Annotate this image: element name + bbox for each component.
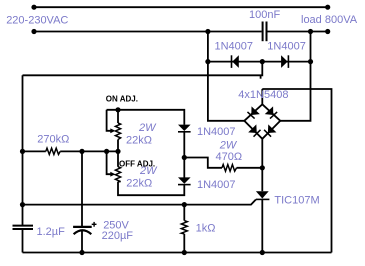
- wire ON pot top rail: [107, 110, 185, 125]
- resistor P1 wiper arrow: [110, 128, 115, 133]
- node middle rail left junction: [20, 149, 25, 154]
- wire diode row: [208, 61, 311, 63]
- wire 1k bottom lead: [183, 234, 185, 253]
- resistor R2 470 zigzag: [222, 165, 237, 172]
- wire bridge top to right rail: [262, 89, 331, 253]
- bridge diode lower-right: [264, 124, 277, 137]
- node middle rail 220uF junction: [79, 149, 84, 154]
- thyristor Q1 TIC107M: [256, 191, 270, 199]
- wire diode-row right down to bridge right: [280, 62, 310, 121]
- node mains terminal bottom left: [31, 29, 36, 34]
- bridge diode upper-right: [265, 106, 278, 119]
- svg-text:1N4007: 1N4007: [215, 41, 254, 53]
- wire between diodes D3 D4: [183, 132, 185, 178]
- svg-text:ON ADJ.: ON ADJ.: [106, 94, 138, 103]
- resistor P2 wiper arrow: [110, 172, 115, 177]
- svg-text:2W: 2W: [138, 122, 157, 134]
- wire ON pot top terminal: [117, 110, 119, 123]
- resistor R3 1k zigzag: [181, 221, 187, 234]
- node diode row left junction: [205, 59, 210, 64]
- svg-text:22kΩ: 22kΩ: [126, 135, 152, 147]
- wire left column lower: [22, 229, 24, 252]
- node 1k top junction: [182, 202, 187, 207]
- diode D2 1N4007 right pointing: [281, 55, 288, 68]
- svg-text:2W: 2W: [219, 139, 238, 151]
- wire 220uF column lower: [81, 231, 83, 253]
- wire stub below box-top corner: [260, 75, 262, 78]
- node gate row left junction: [20, 202, 25, 207]
- node diode row right junction: [308, 59, 313, 64]
- svg-text:TIC107M: TIC107M: [274, 195, 319, 207]
- resistor P2 OFF pot 22k zigzag: [115, 167, 120, 182]
- wire mains line 2 left section: [34, 31, 262, 33]
- wire 220uF column upper: [81, 151, 83, 226]
- wire bottom rail: [23, 252, 332, 254]
- svg-text:220µF: 220µF: [102, 230, 134, 242]
- svg-text:2W: 2W: [139, 165, 158, 177]
- wire 470 ohm jog: [184, 158, 222, 168]
- wire ON pot wiper: [107, 110, 112, 131]
- wire diode junction down and left to box top: [23, 62, 263, 76]
- wire gate row: [23, 200, 256, 205]
- svg-text:220-230VAC: 220-230VAC: [6, 14, 68, 26]
- wire bridge top feed: [261, 89, 263, 104]
- svg-text:1N4007: 1N4007: [197, 179, 236, 191]
- svg-text:1.2µF: 1.2µF: [37, 226, 66, 238]
- wire top mains line 1: [34, 6, 328, 8]
- node OFF pot wiper junction: [104, 149, 109, 154]
- node diodes D3 D4 junction: [182, 155, 187, 160]
- capacitor C2 1.2uF plates: [13, 226, 34, 229]
- diode D3 1N4007 down pointing: [178, 125, 191, 132]
- svg-text:22kΩ: 22kΩ: [126, 178, 152, 190]
- diode D4 1N4007 down pointing: [178, 177, 191, 184]
- svg-text:100nF: 100nF: [249, 9, 280, 21]
- wire vertical wire2 to bridge left: [208, 32, 244, 121]
- resistor P1 ON pot 22k zigzag: [115, 123, 120, 140]
- node bottom rail SCR junction: [260, 250, 265, 255]
- node mains terminal top left: [31, 5, 36, 10]
- bridge diode upper-left: [247, 106, 260, 119]
- wire SCR column cathode: [261, 199, 263, 252]
- svg-text:4x1N5408: 4x1N5408: [238, 89, 288, 101]
- resistor R1 270k zigzag: [46, 148, 60, 154]
- wire 1k top lead: [183, 205, 185, 221]
- node bottom rail 1k junction: [182, 250, 187, 255]
- wire middle rail left of 270k: [23, 150, 46, 152]
- svg-text:470Ω: 470Ω: [216, 151, 243, 163]
- node pots junction: [115, 149, 120, 154]
- capacitor C1 100nF: [263, 22, 267, 42]
- svg-text:1N4007: 1N4007: [197, 126, 236, 138]
- wire OFF pot bottom run to diode column: [118, 182, 184, 196]
- wire OFF pot wiper: [107, 151, 112, 174]
- wire bridge diamond edges: [244, 104, 280, 139]
- node ON pot top junction: [115, 107, 120, 112]
- bridge diode lower-left: [248, 124, 261, 137]
- svg-text:270kΩ: 270kΩ: [37, 133, 69, 145]
- wire 470 ohm to SCR column: [237, 167, 263, 169]
- capacitor C3 plus sign: [92, 222, 97, 227]
- node diode row middle junction: [260, 59, 265, 64]
- node wire2 x208 junction: [205, 29, 210, 34]
- diode D1 1N4007 left pointing: [232, 55, 239, 68]
- svg-text:1kΩ: 1kΩ: [196, 223, 216, 235]
- svg-text:1N4007: 1N4007: [267, 41, 306, 53]
- node load terminal top right: [325, 5, 330, 10]
- wire ON pot bottom terminal: [117, 140, 119, 152]
- wire vertical diode-row right to wire2: [310, 32, 312, 62]
- svg-text:load 800VA: load 800VA: [301, 14, 358, 26]
- node load terminal bottom right: [325, 29, 330, 34]
- wire mains line 2 right section: [267, 31, 327, 33]
- wire left column upper: [22, 75, 24, 225]
- wire SCR column anode: [261, 139, 263, 191]
- node bottom rail 220uF junction: [79, 250, 84, 255]
- node wire2 x310 junction: [308, 29, 313, 34]
- capacitor C3 220uF electrolytic plates: [73, 227, 92, 234]
- node 470 SCR junction: [260, 165, 265, 170]
- wire OFF pot top terminal: [117, 151, 119, 166]
- wire middle rail right of 270k: [60, 150, 118, 152]
